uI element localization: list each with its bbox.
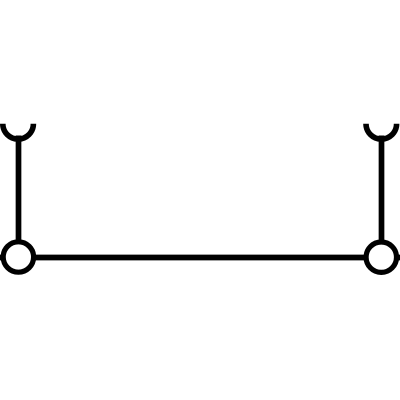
wire: left vertical lead	[16, 136, 22, 242]
socket contact (right, upward open arc)	[366, 124, 397, 139]
wire: right vertical lead	[379, 136, 385, 242]
wire: horizontal internal bus, edge to edge	[0, 255, 400, 261]
terminal node circle (right clamping point)	[366, 242, 396, 272]
terminal node circle (left clamping point)	[3, 242, 33, 272]
socket contact (left, upward open arc)	[3, 124, 34, 139]
